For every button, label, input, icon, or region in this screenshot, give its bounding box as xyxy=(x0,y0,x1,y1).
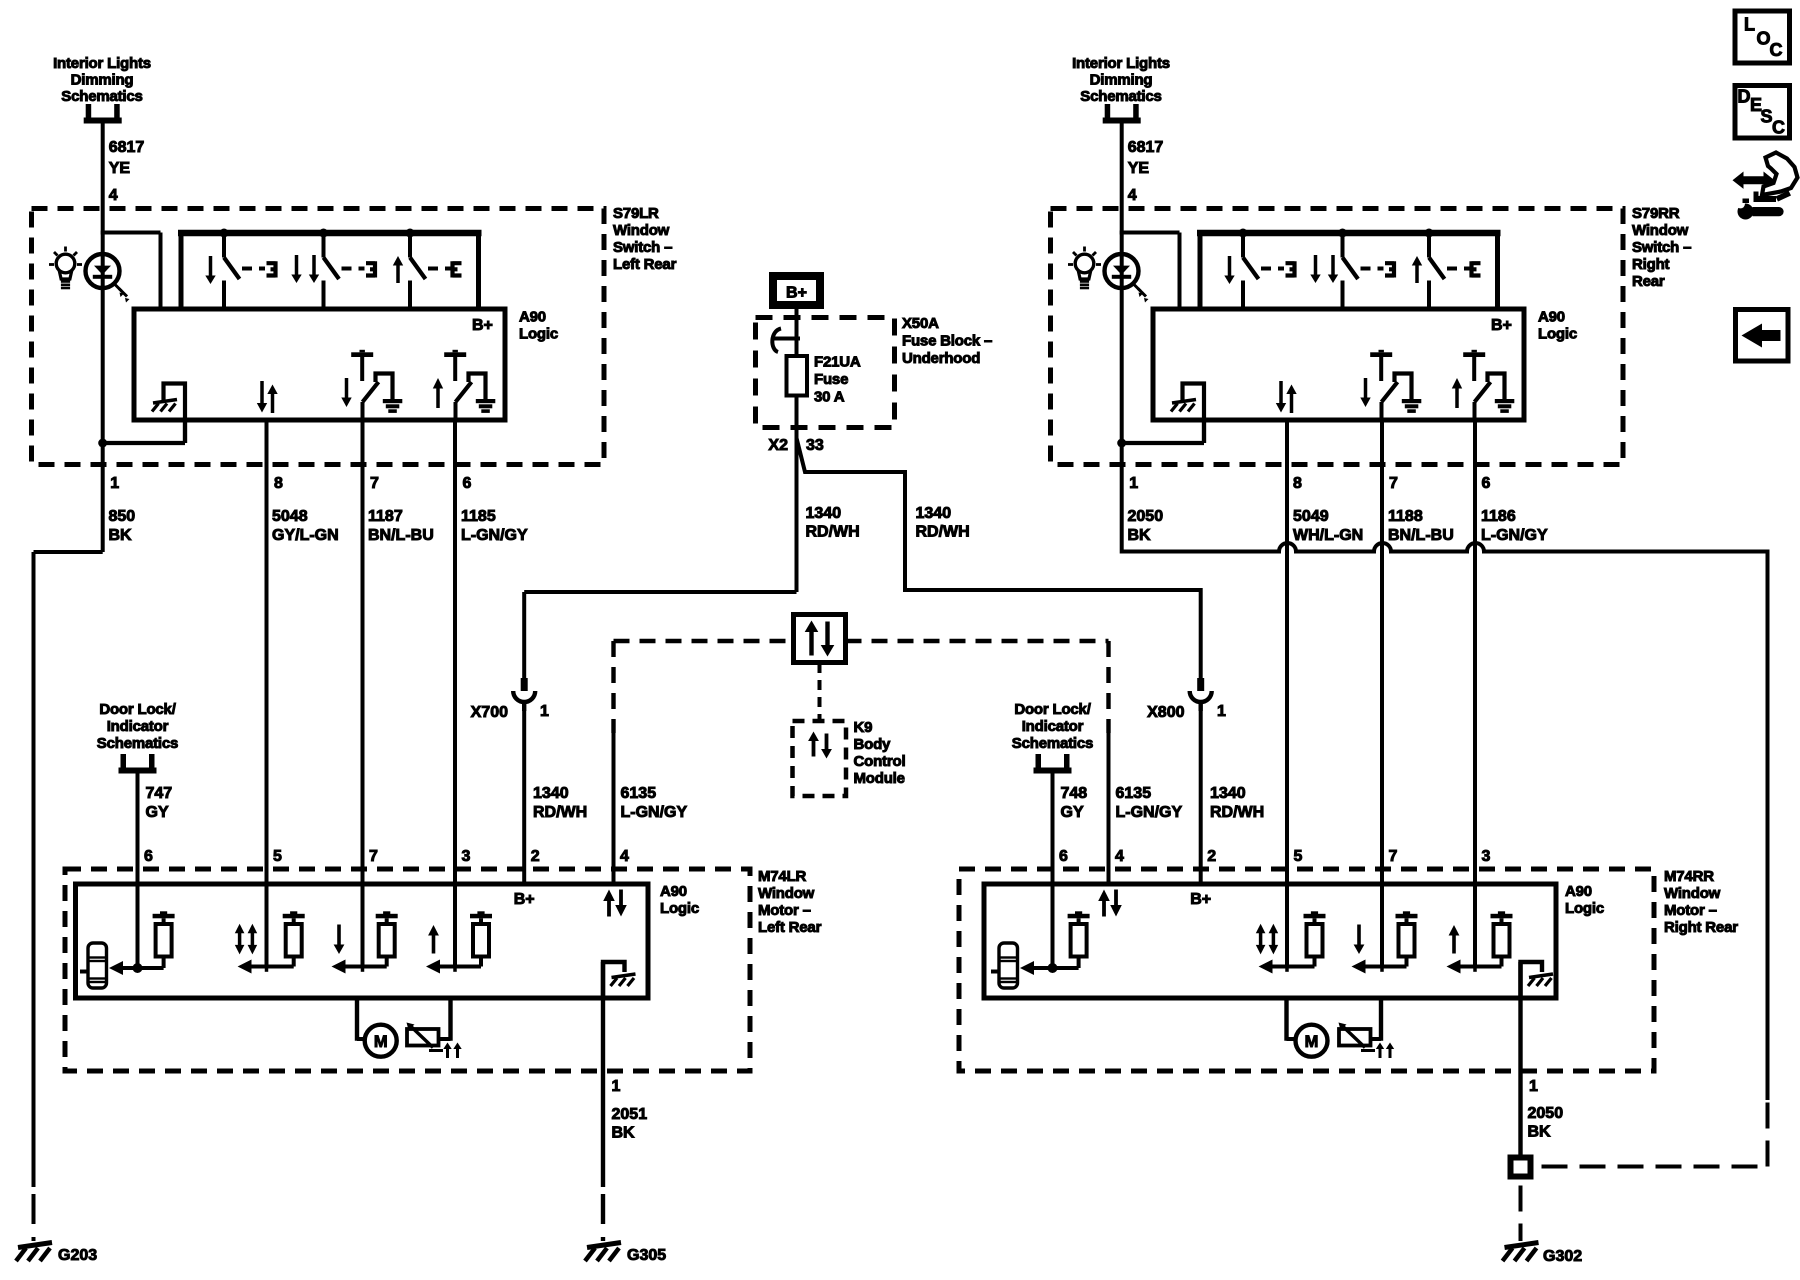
svg-text:Window: Window xyxy=(1632,222,1689,239)
svg-text:BN/L-BU: BN/L-BU xyxy=(368,527,434,544)
icon box LOC xyxy=(1735,11,1790,63)
internal ground with hatch (M74LR pin1) xyxy=(603,962,625,998)
svg-text:M74RR: M74RR xyxy=(1664,868,1714,885)
label S79LR Window Switch xyxy=(613,205,677,273)
svg-text:BK: BK xyxy=(612,1125,636,1142)
svg-text:L-GN/GY: L-GN/GY xyxy=(461,527,528,544)
fuse F21UA 30A xyxy=(795,356,799,438)
wire 6135 L-GN/GY to M74RR pin 4 xyxy=(1107,733,1111,884)
svg-text:Dimming: Dimming xyxy=(71,72,134,89)
dashed ground link to G302 xyxy=(1534,1165,1768,1169)
wire 5048 GY/L-GN xyxy=(265,420,269,967)
svg-text:6135: 6135 xyxy=(621,785,657,802)
svg-text:GY/L-GN: GY/L-GN xyxy=(272,527,339,544)
wire 6817 YE (pin 4 feed, S79LR) xyxy=(103,123,145,209)
svg-text:S79RR: S79RR xyxy=(1632,205,1680,222)
svg-text:3: 3 xyxy=(462,848,471,865)
svg-text:WH/L-GN: WH/L-GN xyxy=(1293,527,1363,544)
svg-text:A90: A90 xyxy=(519,309,546,326)
internal ground with hatch (S79RR A90 pin1) xyxy=(1183,384,1205,444)
svg-text:RD/WH: RD/WH xyxy=(1210,804,1264,821)
label M74RR Window Motor xyxy=(1664,868,1738,936)
svg-text:S79LR: S79LR xyxy=(613,205,659,222)
svg-text:Schematics: Schematics xyxy=(97,735,178,752)
svg-text:1340: 1340 xyxy=(806,505,842,522)
ground G305 xyxy=(587,1243,621,1248)
svg-text:3: 3 xyxy=(1482,848,1491,865)
svg-text:B+: B+ xyxy=(1190,891,1211,908)
motor M with thermal protector (M74LR) xyxy=(355,998,359,1041)
svg-text:4: 4 xyxy=(1115,848,1124,865)
svg-text:1186: 1186 xyxy=(1481,508,1516,525)
svg-text:Control: Control xyxy=(854,753,906,770)
battery feed B+ box xyxy=(773,276,820,305)
svg-text:Dimming: Dimming xyxy=(1090,72,1153,89)
wire 6135 L-GN/GY to M74LR pin 4 xyxy=(612,733,616,884)
svg-text:33: 33 xyxy=(806,437,824,454)
illumination lamp icon (S79LR) xyxy=(49,247,82,289)
svg-text:L-GN/GY: L-GN/GY xyxy=(1116,804,1183,821)
rocker switch contact 1 (S79LR) xyxy=(220,229,229,238)
svg-text:748: 748 xyxy=(1061,785,1088,802)
svg-text:5: 5 xyxy=(273,848,282,865)
svg-text:B+: B+ xyxy=(1491,317,1512,334)
junction (S79LR pin1 net) xyxy=(183,420,187,443)
svg-text:6: 6 xyxy=(144,848,153,865)
svg-text:Right: Right xyxy=(1632,256,1670,273)
svg-text:6: 6 xyxy=(1059,848,1068,865)
svg-text:Window: Window xyxy=(1664,885,1721,902)
icon box back-arrow xyxy=(1736,310,1789,362)
LED illumination diode (S79LR) xyxy=(86,254,130,303)
svg-text:M: M xyxy=(374,1033,388,1051)
wire pin4 through LED down to junction (S79RR) xyxy=(1120,209,1124,443)
svg-text:C: C xyxy=(1772,118,1785,138)
svg-text:7: 7 xyxy=(370,475,379,492)
pin numbers 1 8 7 6 (S79LR) xyxy=(110,475,471,492)
wire 747 GY to M74LR pin 6 xyxy=(136,772,140,967)
svg-text:4: 4 xyxy=(620,848,629,865)
svg-text:X50A: X50A xyxy=(902,315,939,332)
svg-text:O: O xyxy=(1757,29,1771,49)
svg-text:Logic: Logic xyxy=(1565,900,1604,917)
internal up/down arrows at pin 4 (M74LR) xyxy=(603,890,615,902)
svg-text:F21UA: F21UA xyxy=(814,354,861,371)
motor drive branch pin5 (up/down) (M74LR) xyxy=(238,960,252,974)
svg-text:2: 2 xyxy=(531,848,540,865)
svg-text:6135: 6135 xyxy=(1116,785,1152,802)
svg-text:Fuse Block –: Fuse Block – xyxy=(902,333,992,350)
wire 2050 BK to G302 via connector xyxy=(1518,962,1522,1155)
logic module A90 box (S79RR) xyxy=(1153,309,1524,420)
rocker switch contact 2 (S79LR) xyxy=(319,229,328,238)
svg-text:D: D xyxy=(1738,87,1751,107)
svg-text:A90: A90 xyxy=(1565,883,1592,900)
window logic arrow box (BCM output) xyxy=(794,615,846,663)
logic module A90 box (S79LR) xyxy=(134,309,505,420)
motor drive branch pin3 (up) (M74RR) xyxy=(1447,960,1461,974)
wire 5049 WH/L-GN xyxy=(1285,420,1289,967)
svg-text:1340: 1340 xyxy=(1210,785,1246,802)
svg-text:5049: 5049 xyxy=(1293,508,1329,525)
wire pin4 through LED down to junction (S79LR) xyxy=(101,209,105,443)
svg-text:GY: GY xyxy=(146,804,169,821)
internal ground with hatch (M74RR pin1) xyxy=(1521,962,1543,998)
svg-text:YE: YE xyxy=(109,160,131,177)
svg-text:Motor –: Motor – xyxy=(1664,902,1717,919)
wire 2050 BK from S79RR pin 1 (hops over other wires) xyxy=(1122,443,1768,1100)
svg-text:X2: X2 xyxy=(768,437,788,454)
B+ bus wire (S79LR) xyxy=(178,230,482,237)
svg-text:Fuse: Fuse xyxy=(814,371,848,388)
svg-text:5048: 5048 xyxy=(272,508,308,525)
svg-text:BK: BK xyxy=(1128,527,1152,544)
svg-text:A90: A90 xyxy=(1538,309,1565,326)
svg-text:Door Lock/: Door Lock/ xyxy=(99,701,176,718)
svg-text:7: 7 xyxy=(369,848,378,865)
svg-text:GY: GY xyxy=(1061,804,1084,821)
off-page connector: Interior Lights Dimming Schematics (S79LR) xyxy=(53,55,151,124)
svg-text:1: 1 xyxy=(540,703,549,720)
svg-text:4: 4 xyxy=(109,187,118,204)
svg-text:Switch –: Switch – xyxy=(1632,239,1691,256)
wire 1187 BN/L-BU xyxy=(361,420,365,967)
internal up/down arrows (S79LR A90 pin8) xyxy=(257,403,267,413)
wire 748 GY to M74RR pin 6 xyxy=(1051,772,1055,967)
internal switch to ground 2 (S79LR A90) xyxy=(444,352,466,357)
motor drive branch pin7 (down) (M74LR) xyxy=(332,960,346,974)
svg-text:Motor –: Motor – xyxy=(758,902,811,919)
svg-text:B+: B+ xyxy=(786,285,807,302)
car position indicator icon (M74LR) xyxy=(88,943,107,988)
wire branch to logic B+ (S79LR) xyxy=(101,231,161,235)
wire 1340 RD/WH X700 to M74LR pin 2 xyxy=(522,711,526,884)
wire 1185 L-GN/GY xyxy=(453,420,457,967)
motor drive branch pin5 (up/down) (M74RR) xyxy=(1259,960,1273,974)
svg-text:4: 4 xyxy=(1128,187,1137,204)
svg-text:YE: YE xyxy=(1128,160,1150,177)
motor logic A90 box (M74RR) xyxy=(984,884,1556,998)
rocker switch contact 2 (S79RR) xyxy=(1338,229,1347,238)
svg-text:5: 5 xyxy=(1294,848,1303,865)
K9 internal arrows xyxy=(808,732,819,742)
svg-text:8: 8 xyxy=(274,475,283,492)
wire 6817 YE (pin 4 feed, S79RR) xyxy=(1122,123,1164,209)
svg-text:BK: BK xyxy=(1528,1124,1552,1141)
svg-text:Interior Lights: Interior Lights xyxy=(53,55,151,72)
svg-text:6: 6 xyxy=(1482,475,1491,492)
svg-text:8: 8 xyxy=(1293,475,1302,492)
svg-text:Left Rear: Left Rear xyxy=(613,256,677,273)
internal switch to ground 1 (S79LR A90) xyxy=(351,352,373,357)
svg-text:30 A: 30 A xyxy=(814,389,845,406)
svg-text:Left Rear: Left Rear xyxy=(758,919,822,936)
position sense branch pin6 (M74LR) xyxy=(109,961,123,975)
svg-text:C: C xyxy=(1770,40,1783,60)
motor M with thermal protector (M74RR) xyxy=(1284,998,1288,1041)
svg-text:B+: B+ xyxy=(514,891,535,908)
svg-text:Rear: Rear xyxy=(1632,273,1665,290)
LED illumination diode (S79RR) xyxy=(1105,254,1149,303)
wire B+ to fuse xyxy=(795,309,799,356)
motor drive branch pin3 (up) (M74LR) xyxy=(426,960,440,974)
svg-text:Indicator: Indicator xyxy=(1022,718,1084,735)
window motor M74LR dashed outline xyxy=(65,869,750,1071)
icon arrows with wrench xyxy=(1733,172,1775,189)
svg-text:850: 850 xyxy=(109,508,136,525)
svg-text:RD/WH: RD/WH xyxy=(806,524,860,541)
svg-text:1: 1 xyxy=(1129,475,1138,492)
svg-text:M74LR: M74LR xyxy=(758,868,807,885)
fuse block X50A dashed box xyxy=(756,318,895,428)
pin numbers (M74LR) xyxy=(144,848,629,865)
rocker switch contact 1 (S79RR) xyxy=(1239,229,1248,238)
svg-text:L: L xyxy=(1744,15,1755,35)
dashed stub to K9 xyxy=(818,663,822,721)
off-page connector: Interior Lights Dimming Schematics (S79RR) xyxy=(1072,55,1170,124)
svg-text:2: 2 xyxy=(1207,848,1216,865)
wire 1186 L-GN/GY xyxy=(1473,420,1477,967)
svg-text:Window: Window xyxy=(613,222,670,239)
svg-text:K9: K9 xyxy=(854,719,873,736)
svg-text:BK: BK xyxy=(109,527,133,544)
svg-text:M: M xyxy=(1305,1033,1319,1051)
B+ bus wire (S79RR) xyxy=(1197,230,1501,237)
label S79RR Window Switch xyxy=(1632,205,1691,290)
pin numbers (M74RR) xyxy=(1059,848,1491,865)
fuse clip hook xyxy=(772,329,781,353)
svg-text:7: 7 xyxy=(1389,848,1398,865)
svg-text:Right Rear: Right Rear xyxy=(1664,919,1738,936)
svg-text:Module: Module xyxy=(854,770,905,787)
svg-text:1: 1 xyxy=(1217,703,1226,720)
svg-text:2050: 2050 xyxy=(1528,1105,1564,1122)
svg-text:Logic: Logic xyxy=(660,900,699,917)
svg-text:6: 6 xyxy=(463,475,472,492)
window motor M74RR dashed outline xyxy=(959,869,1654,1071)
svg-text:X800: X800 xyxy=(1147,704,1184,721)
svg-text:2050: 2050 xyxy=(1128,508,1164,525)
svg-text:1185: 1185 xyxy=(461,508,496,525)
svg-text:1: 1 xyxy=(1529,1078,1538,1095)
wire 1188 BN/L-BU xyxy=(1380,420,1384,967)
window switch S79RR dashed outline xyxy=(1051,209,1624,465)
dashed net to right window motor (6135) xyxy=(846,639,1109,643)
svg-text:A90: A90 xyxy=(660,883,687,900)
svg-text:G305: G305 xyxy=(627,1247,666,1264)
illumination lamp icon (S79RR) xyxy=(1068,247,1101,289)
svg-text:L-GN/GY: L-GN/GY xyxy=(621,804,688,821)
splice connector to G302 xyxy=(1511,1158,1531,1177)
svg-text:G302: G302 xyxy=(1543,1248,1582,1265)
internal up/down arrows at pin 4 (M74RR) xyxy=(1098,890,1110,902)
internal ground with hatch (S79LR A90 pin1) xyxy=(164,384,186,444)
svg-text:747: 747 xyxy=(146,785,173,802)
svg-text:X700: X700 xyxy=(471,704,508,721)
svg-text:L-GN/GY: L-GN/GY xyxy=(1481,527,1548,544)
wire branch to logic B+ (S79RR) xyxy=(1120,231,1180,235)
wire 1340 RD/WH right branch to X800 xyxy=(797,438,1201,678)
ground G302 xyxy=(1505,1243,1539,1248)
in-line connector X800 pin 1 xyxy=(1197,678,1204,691)
motor logic A90 box (M74LR) xyxy=(76,884,649,998)
in-line connector X700 pin 1 xyxy=(521,678,528,691)
svg-text:B+: B+ xyxy=(472,317,493,334)
svg-text:1340: 1340 xyxy=(916,505,952,522)
svg-text:RD/WH: RD/WH xyxy=(533,804,587,821)
svg-text:1: 1 xyxy=(110,475,119,492)
svg-text:RD/WH: RD/WH xyxy=(916,524,970,541)
svg-text:1340: 1340 xyxy=(533,785,569,802)
wire 850 BK from S79LR pin 1 to G203 xyxy=(101,443,105,552)
icon box DESC xyxy=(1735,86,1790,139)
internal up/down arrows (S79RR A90 pin8) xyxy=(1276,403,1286,413)
svg-text:Door Lock/: Door Lock/ xyxy=(1014,701,1091,718)
svg-text:Logic: Logic xyxy=(519,326,558,343)
svg-text:Schematics: Schematics xyxy=(1012,735,1093,752)
svg-text:Indicator: Indicator xyxy=(107,718,169,735)
rocker switch contact 3 (S79RR) xyxy=(1425,229,1434,238)
svg-text:1188: 1188 xyxy=(1388,508,1423,525)
svg-text:6817: 6817 xyxy=(109,139,145,156)
svg-text:2051: 2051 xyxy=(612,1106,648,1123)
label M74LR Window Motor xyxy=(758,868,822,936)
svg-text:7: 7 xyxy=(1389,475,1398,492)
svg-text:Schematics: Schematics xyxy=(61,88,142,105)
wire 1340 RD/WH X800 to M74RR pin 2 xyxy=(1199,711,1203,884)
pin numbers 1 8 7 6 (S79RR) xyxy=(1129,475,1490,492)
svg-text:S: S xyxy=(1761,107,1773,127)
svg-text:Interior Lights: Interior Lights xyxy=(1072,55,1170,72)
wire 1340 RD/WH left branch to X700 xyxy=(795,438,799,592)
dashed net to left window motor (6135) xyxy=(614,639,794,643)
wire 2051 BK to G305 xyxy=(601,962,605,1187)
svg-text:1: 1 xyxy=(612,1078,621,1095)
body control module K9 dashed box xyxy=(793,721,847,796)
junction (S79RR pin1 net) xyxy=(1202,420,1206,443)
window switch S79LR dashed outline xyxy=(32,209,605,465)
svg-text:Body: Body xyxy=(854,736,892,753)
svg-text:Underhood: Underhood xyxy=(902,350,980,367)
internal switch to ground 2 (S79RR A90) xyxy=(1463,352,1485,357)
internal switch to ground 1 (S79RR A90) xyxy=(1370,352,1392,357)
svg-text:Logic: Logic xyxy=(1538,326,1577,343)
svg-text:G203: G203 xyxy=(58,1247,97,1264)
ground G203 xyxy=(18,1243,52,1248)
svg-text:BN/L-BU: BN/L-BU xyxy=(1388,527,1454,544)
svg-text:Window: Window xyxy=(758,885,815,902)
svg-text:1187: 1187 xyxy=(368,508,403,525)
svg-text:Switch –: Switch – xyxy=(613,239,672,256)
svg-text:Schematics: Schematics xyxy=(1080,88,1161,105)
position sense branch pin6 (M74RR) xyxy=(1020,961,1034,975)
svg-text:6817: 6817 xyxy=(1128,139,1164,156)
car position indicator icon (M74RR) xyxy=(999,943,1018,988)
rocker switch contact 3 (S79LR) xyxy=(406,229,415,238)
motor drive branch pin7 (down) (M74RR) xyxy=(1352,960,1366,974)
